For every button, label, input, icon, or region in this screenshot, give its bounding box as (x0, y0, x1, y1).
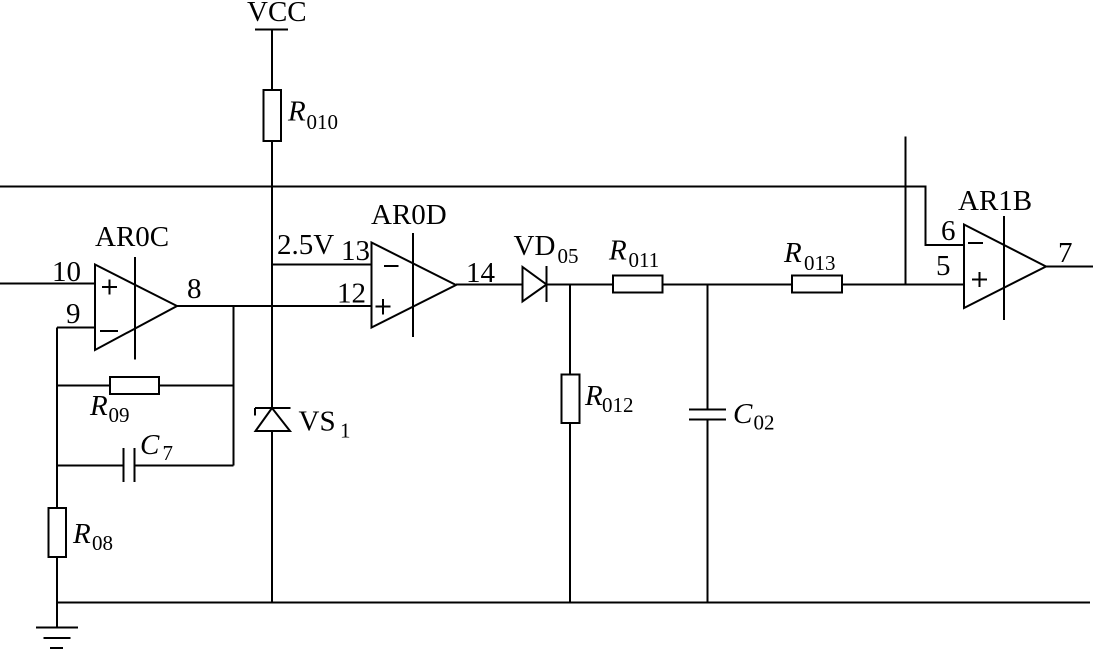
svg-text:13: 13 (341, 235, 370, 267)
svg-text:010: 010 (307, 110, 339, 134)
svg-text:7: 7 (1058, 237, 1073, 269)
svg-text:R: R (584, 380, 603, 412)
svg-text:9: 9 (66, 298, 81, 330)
svg-text:AR0C: AR0C (95, 221, 169, 253)
svg-text:R: R (72, 518, 91, 550)
svg-text:09: 09 (109, 403, 130, 427)
svg-text:10: 10 (52, 256, 81, 288)
svg-text:R: R (287, 96, 306, 128)
svg-text:VD: VD (514, 230, 556, 262)
svg-text:R: R (89, 390, 108, 422)
svg-text:C: C (733, 398, 753, 430)
svg-text:14: 14 (466, 257, 496, 289)
svg-text:AR1B: AR1B (958, 185, 1032, 217)
svg-text:05: 05 (558, 244, 579, 268)
svg-text:8: 8 (187, 273, 202, 305)
svg-text:2.5V: 2.5V (277, 229, 334, 261)
svg-text:1: 1 (340, 419, 351, 443)
svg-text:013: 013 (804, 251, 836, 275)
svg-text:7: 7 (163, 441, 174, 465)
svg-text:6: 6 (941, 215, 956, 247)
svg-text:R: R (608, 235, 627, 267)
svg-text:AR0D: AR0D (371, 199, 447, 231)
svg-text:12: 12 (337, 278, 366, 310)
svg-text:5: 5 (936, 250, 951, 282)
svg-text:R: R (783, 237, 802, 269)
svg-text:011: 011 (629, 248, 660, 272)
svg-text:012: 012 (602, 393, 634, 417)
svg-text:C: C (140, 429, 160, 461)
svg-text:08: 08 (92, 531, 113, 555)
svg-text:VCC: VCC (247, 0, 307, 28)
svg-text:VS: VS (299, 406, 336, 438)
svg-text:02: 02 (754, 411, 775, 435)
